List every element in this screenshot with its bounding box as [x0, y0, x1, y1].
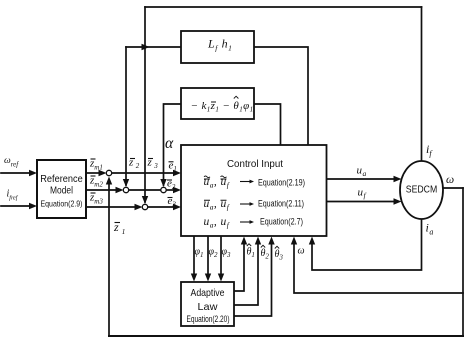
svg-text:θ3: θ3 — [275, 249, 284, 262]
arrowhead i_fref into ref model — [29, 203, 37, 209]
wire bottom rail — [109, 335, 463, 337]
wire u_a — [327, 178, 396, 180]
wire phi1 down — [193, 236, 195, 275]
svg-text:φ3: φ3 — [222, 247, 232, 260]
svg-text:ia: ia — [426, 221, 434, 237]
svg-text:Equation(2.11): Equation(2.11) — [258, 199, 304, 209]
svg-text:ω: ω — [298, 246, 305, 257]
svg-text:uf: uf — [358, 187, 367, 201]
svg-text:θ2: θ2 — [261, 248, 270, 261]
wire i_fref input — [1, 205, 31, 207]
wire theta2 — [234, 243, 258, 305]
svg-text:zm2: zm2 — [89, 175, 103, 189]
wire omega branch to control input — [294, 243, 463, 293]
svg-text:Equation(2.7): Equation(2.7) — [260, 217, 303, 227]
svg-text:− k1z1 − θ1φ1: − k1z1 − θ1φ1 — [191, 100, 254, 114]
svg-text:ω: ω — [446, 174, 454, 186]
wire row2 zm2 — [86, 189, 117, 191]
block Lf h1 — [181, 31, 254, 63]
text control row1 arrow — [240, 181, 251, 183]
block Reference Model — [37, 160, 86, 218]
arrowhead theta2 up — [255, 237, 261, 245]
svg-text:zm3: zm3 — [89, 192, 103, 206]
wire row3 into control box — [148, 206, 176, 208]
label zbar_1 bar — [115, 222, 121, 224]
wire omega_ref input — [1, 172, 31, 174]
wire row3 zm3 — [86, 206, 136, 208]
svg-text:Equation(2.20): Equation(2.20) — [187, 314, 230, 324]
svg-text:α: α — [165, 135, 174, 152]
arrowhead phi3 into adaptive law — [218, 274, 224, 282]
block -k1z1-theta1phi1 — [181, 88, 254, 119]
text control row1 bars — [204, 178, 227, 180]
text control row1 tildes — [204, 176, 227, 178]
svg-text:Equation(2.9): Equation(2.9) — [41, 198, 83, 208]
label zbar_m1 bar — [91, 158, 96, 160]
label thetahat_1 hat — [247, 244, 251, 246]
label zbar_m2 bar — [91, 175, 96, 177]
svg-text:θ1: θ1 — [247, 247, 255, 260]
svg-text:Reference: Reference — [40, 174, 83, 185]
arrowhead z2 feed into z3 line — [142, 44, 150, 50]
arrowhead row2 into control box — [173, 187, 181, 193]
label zbar_3 bar — [148, 158, 153, 160]
svg-text:SEDCM: SEDCM — [406, 185, 438, 196]
wire right vertical omega — [462, 188, 464, 336]
wire k1 box right output — [254, 104, 281, 145]
arrowhead row1 into control box — [173, 170, 181, 176]
svg-text:φ2: φ2 — [209, 247, 219, 260]
wire i_f drop to SEDCM top — [421, 7, 423, 162]
text control row2 bars — [204, 199, 227, 201]
arrowhead theta1 up — [241, 237, 247, 245]
arrowhead z1 up into circle — [106, 177, 112, 185]
label zbar_m3 bar — [91, 192, 96, 194]
arrowhead z3 down into circle — [142, 196, 148, 204]
svg-text:Adaptive: Adaptive — [191, 287, 225, 299]
svg-text:ifref: ifref — [7, 189, 19, 202]
wire u_f — [327, 201, 396, 203]
arrowhead u_f into SEDCM — [394, 198, 402, 204]
svg-text:Equation(2.19): Equation(2.19) — [258, 178, 305, 188]
arrowhead phi2 into adaptive law — [205, 274, 211, 282]
svg-text:ua, uf: ua, uf — [204, 176, 230, 190]
arrowhead i_a up into control box — [309, 237, 315, 245]
svg-text:ua: ua — [357, 165, 367, 179]
svg-text:Law: Law — [198, 301, 218, 313]
node summing junction row2 z2 — [123, 187, 128, 192]
wire row2 into control box — [166, 189, 175, 191]
label ebar_2 bar — [167, 179, 172, 181]
svg-text:zm1: zm1 — [89, 158, 103, 172]
wire z1 feedback vertical — [108, 182, 110, 336]
arrowhead alpha down into circle — [160, 179, 166, 187]
arrowhead row2 into circle — [116, 187, 124, 193]
text control row3 arrow — [240, 221, 251, 223]
wire alpha out of k1 box — [164, 104, 182, 185]
arrowhead theta3 up — [268, 237, 274, 245]
svg-text:if: if — [426, 142, 433, 158]
label ebar_1 bar — [169, 161, 174, 163]
svg-text:ua, uf: ua, uf — [204, 216, 230, 230]
wire z2 feed horizontal to Lfh1 — [126, 46, 181, 48]
wire i_a feedback — [312, 219, 422, 270]
wire z2 vertical — [125, 47, 127, 185]
wire Lfh1 right output — [254, 47, 308, 145]
label zbar_2 bar — [130, 158, 135, 160]
block Adaptive Law — [181, 282, 234, 326]
wire omega out of SEDCM — [443, 187, 463, 189]
wire z3 vertical — [144, 7, 146, 202]
arrowhead omega_ref into ref model — [29, 170, 37, 176]
wire theta3 — [234, 243, 272, 316]
wire phi3 down — [220, 236, 222, 275]
wire row1 zm1 — [86, 172, 100, 174]
plant SEDCM — [400, 161, 443, 219]
arrowhead row3 into circle — [135, 204, 143, 210]
wire row2 between circles — [129, 189, 162, 191]
text k1 box zbar — [211, 101, 216, 103]
block Control Input — [181, 145, 327, 236]
arrowhead z2 down into circle — [123, 179, 129, 187]
arrowhead row1 into circle — [99, 170, 107, 176]
text control row2 arrow — [240, 203, 251, 205]
svg-text:Model: Model — [50, 186, 73, 197]
label ebar_3 bar — [168, 197, 173, 199]
node summing junction row1 — [106, 170, 111, 175]
label thetahat_3 hat — [275, 246, 279, 248]
wire theta1 — [234, 243, 244, 291]
arrowhead phi1 into adaptive law — [191, 274, 197, 282]
svg-text:Control Input: Control Input — [227, 159, 283, 170]
node summing junction row3 — [142, 204, 147, 209]
svg-text:ωref: ωref — [4, 156, 19, 169]
svg-text:φ1: φ1 — [195, 247, 204, 260]
text k1 box thetahat — [234, 96, 239, 98]
wire row1 into control box — [112, 172, 176, 174]
wire top rail i_f — [145, 6, 422, 8]
arrowhead row3 into control box — [173, 204, 181, 210]
node summing junction row2 alpha — [161, 187, 166, 192]
arrowhead u_a into SEDCM — [394, 176, 402, 182]
wire phi2 down — [207, 236, 209, 275]
arrowhead omega up into control box — [291, 237, 297, 245]
label thetahat_2 hat — [261, 245, 265, 247]
